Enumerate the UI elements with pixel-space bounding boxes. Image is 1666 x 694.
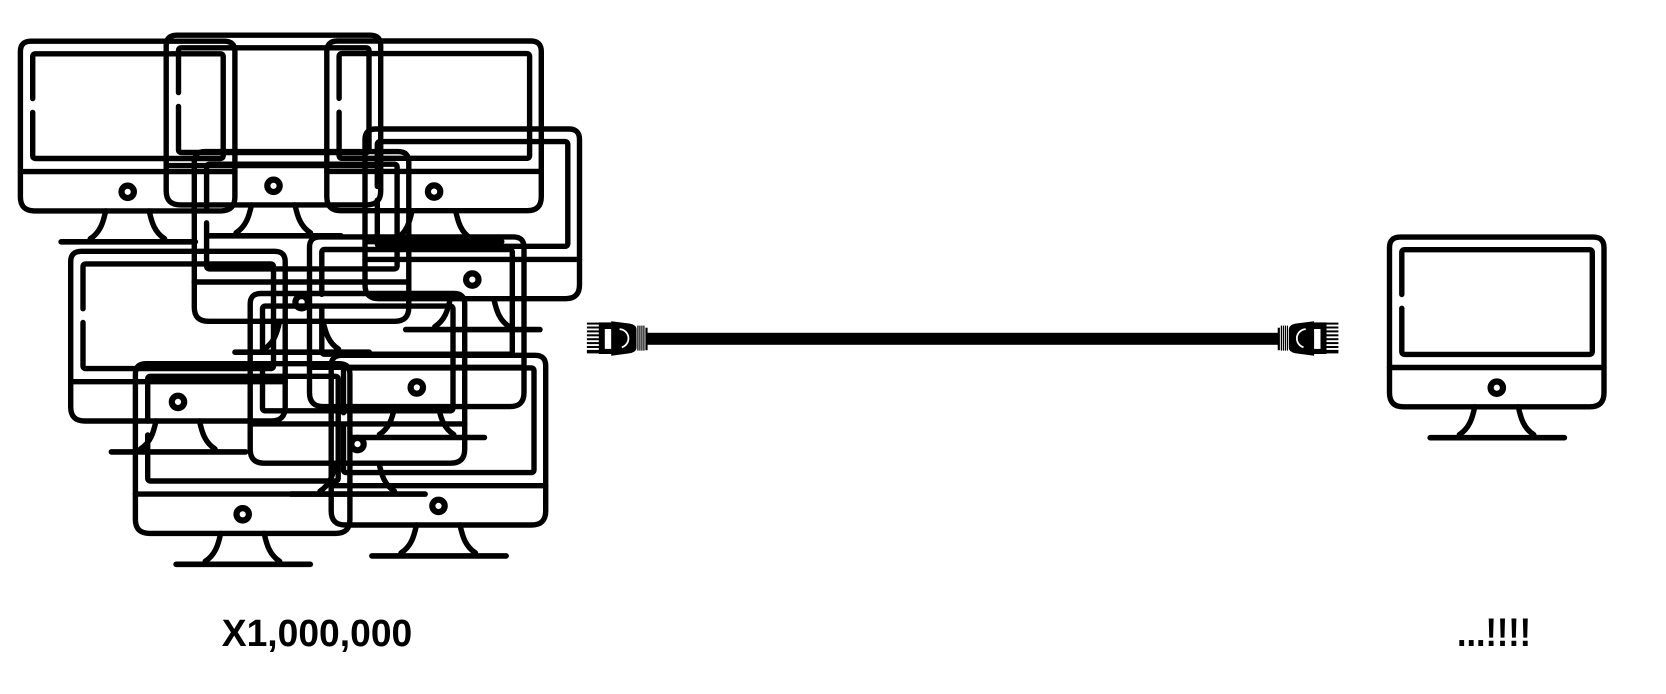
computer icon 1 (pile top-left)	[20, 41, 235, 242]
computer icon 8 (pile center-lower)	[250, 294, 465, 495]
computer icon 6 (pile center)	[310, 237, 525, 438]
ethernet cable wire	[648, 333, 1280, 345]
single computer icon (right)	[1390, 237, 1605, 438]
computer icon 7 (pile left-middle)	[71, 251, 286, 452]
svg-text:X1,000,000: X1,000,000	[222, 612, 413, 655]
computer icon 2 (pile top-middle)	[166, 35, 381, 236]
computer icon 4 (pile right-middle)	[365, 129, 580, 330]
ethernet plug right (RJ45, mirrored)	[1278, 321, 1339, 356]
svg-text:...!!!!: ...!!!!	[1457, 611, 1531, 655]
computer icon 9 (pile bottom-left)	[135, 364, 350, 565]
computer icon 3 (pile top-right)	[327, 41, 541, 242]
computer icon 5 (pile center-upper)	[194, 152, 408, 353]
computer icon 10 (pile bottom-center)	[331, 355, 546, 556]
ethernet plug left (RJ45)	[587, 321, 648, 356]
